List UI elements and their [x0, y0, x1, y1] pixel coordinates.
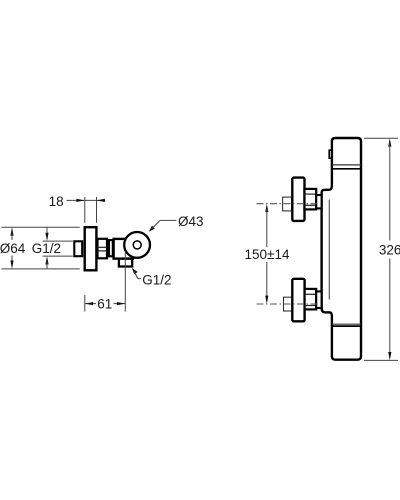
bottom union centerline (dash-dot): [257, 303, 318, 305]
tube silhouette line between unions: [328, 200, 330, 300]
D64 line upper tail: [11, 233, 13, 240]
bottom union nut facet lower: [305, 305, 317, 307]
knob outer circle D43: [124, 232, 150, 258]
dimension 61 arrow right: [117, 302, 125, 305]
dimension 18 line: [67, 199, 105, 201]
extension line 18 right: [96, 197, 98, 223]
bottom cap separation line (thin): [332, 323, 361, 325]
dimension 18 arrow left (pointing right): [76, 199, 84, 202]
dimension 150 lower tail: [266, 262, 268, 299]
dimension 150 upper tail: [266, 209, 268, 247]
svg-text:G1/2: G1/2: [32, 241, 61, 256]
top union: wall stub (thin outline): [283, 197, 292, 211]
outlet fitting (G1/2 bottom, left view): [119, 259, 132, 267]
valve body (left view): [114, 239, 133, 259]
dimension 61 line left segment: [85, 303, 96, 305]
extension line G1/2 stub top: [43, 240, 73, 242]
spacer ring (left view): [109, 240, 113, 256]
dimension 326 upper tail: [389, 143, 391, 241]
mixer bar body: [322, 138, 361, 360]
leader G1/2 horizontal: [138, 278, 141, 280]
top cap separation line (thick): [332, 168, 361, 170]
svg-text:150±14: 150±14: [245, 247, 290, 262]
dimension 18 arrow right (pointing left): [97, 199, 105, 202]
knob inner circle: [133, 241, 141, 249]
inlet stub (G1/2 male, left view): [74, 241, 82, 256]
G1/2 stub arrow up (tip at bottom ext line): [45, 256, 48, 264]
top cap separation line (thin): [332, 164, 361, 166]
G1/2 stub arrow down (tip at top ext line): [45, 233, 48, 241]
bottom union: nut: [305, 289, 317, 310]
dimension 61 line right segment: [114, 303, 126, 305]
outlet centerline / 61 extension line: [124, 251, 126, 312]
svg-text:18: 18: [49, 194, 64, 209]
leader D43 horizontal: [160, 219, 176, 221]
extension line 326 bottom: [364, 359, 398, 361]
dimension 326 lower tail: [389, 259, 391, 356]
dimension 61 arrow left: [85, 302, 93, 305]
bottom union: wall stub (thin outline): [284, 297, 293, 311]
top union: adapter: [316, 195, 321, 208]
dimension 326 upper arrow (tip up): [388, 138, 391, 146]
extension line D64 bottom: [2, 268, 80, 270]
dimension 326 lower arrow (tip down): [388, 352, 391, 360]
extension line 61 left: [84, 295, 86, 312]
svg-text:61: 61: [97, 296, 112, 311]
top union: nut: [305, 189, 317, 210]
mixer bar wall-side notch: [329, 150, 333, 158]
svg-text:G1/2: G1/2: [142, 272, 171, 287]
bottom union: flange: [292, 279, 304, 322]
G1/2 stub lower tail: [46, 262, 48, 269]
nut facet line lower: [98, 250, 108, 252]
leader G1/2 outlet: arrowhead at fitting: [132, 268, 138, 274]
top union nut facet lower: [305, 204, 317, 206]
extension line D64 top: [2, 226, 80, 228]
bottom cap separation line (thick): [332, 325, 361, 327]
svg-text:Ø64: Ø64: [0, 241, 26, 256]
top union: flange: [292, 178, 304, 221]
nut facet line upper: [98, 246, 108, 248]
union nut (left view): [98, 239, 108, 258]
wall plate / escutcheon (left view): [85, 227, 97, 270]
D64 arrow down: [10, 261, 13, 269]
extension line 18 left: [84, 197, 86, 223]
leader D43 diagonal: [152, 220, 161, 229]
extension line 326 top: [364, 137, 398, 139]
svg-text:Ø43: Ø43: [178, 214, 204, 229]
svg-text:326: 326: [379, 243, 400, 258]
D64 arrow up: [10, 227, 13, 235]
leader G1/2 diagonal: [134, 271, 138, 278]
leader D43: arrowhead at knob: [149, 226, 155, 232]
top union centerline (dash-dot): [257, 203, 318, 205]
dimension 150 lower arrow (tip down): [265, 296, 268, 304]
top union nut facet upper: [305, 193, 317, 195]
G1/2 stub upper tail: [46, 227, 48, 234]
bottom union: adapter: [316, 291, 321, 308]
bottom union nut facet upper: [305, 293, 317, 295]
dimension 150+-14: upper arrow (tip up): [265, 204, 268, 212]
extension line G1/2 stub bottom: [43, 255, 73, 257]
D64 line lower tail: [11, 256, 13, 264]
